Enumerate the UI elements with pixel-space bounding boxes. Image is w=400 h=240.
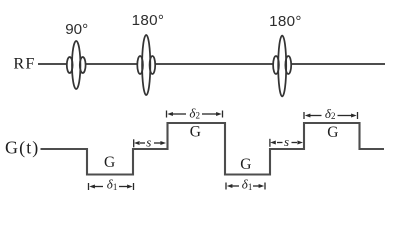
svg-text:RF: RF bbox=[13, 54, 35, 73]
svg-text:180°: 180° bbox=[269, 13, 302, 30]
180-degree RF pulse P2 bbox=[137, 35, 156, 95]
svg-text:G: G bbox=[240, 156, 251, 173]
delta1 timing annotation (first) bbox=[89, 183, 134, 190]
svg-text:G: G bbox=[190, 124, 201, 141]
svg-text:G: G bbox=[104, 154, 115, 171]
svg-text:90°: 90° bbox=[65, 21, 88, 38]
s timing annotation (first) bbox=[134, 139, 166, 147]
svg-text:180°: 180° bbox=[132, 12, 165, 29]
svg-text:s: s bbox=[146, 134, 151, 149]
svg-text:G: G bbox=[327, 124, 338, 141]
delta2 timing annotation (second) bbox=[304, 112, 358, 119]
svg-text:s: s bbox=[284, 134, 289, 149]
s timing annotation (second) bbox=[270, 139, 303, 147]
delta1 timing annotation (second) bbox=[226, 183, 265, 190]
delta2 timing annotation (first) bbox=[167, 111, 223, 118]
svg-text:G(t): G(t) bbox=[5, 137, 39, 158]
RF line bbox=[38, 63, 385, 65]
180-degree RF pulse P3 bbox=[273, 36, 292, 97]
gradient waveform G(t) trace bbox=[41, 123, 385, 175]
90-degree RF pulse P1 bbox=[67, 41, 86, 89]
